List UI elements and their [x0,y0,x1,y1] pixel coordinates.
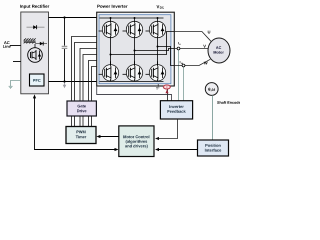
inverter feedback box [160,101,192,119]
power inverter box [97,12,175,86]
node V phase [134,50,136,52]
wire gate 5 [89,61,97,102]
label Input Rectifier [20,5,49,9]
label U [208,31,210,34]
node U phase [110,54,112,56]
transistor Q7 (bottom W IGBT) [146,61,166,81]
wire DC+ bus [49,17,97,19]
wire DC link [64,18,66,46]
wire DC- rail [99,81,163,83]
wire PFC control [35,98,115,150]
label T sense [156,84,159,90]
wire gate 4 [83,55,97,102]
transistor Q5 (bottom U IGBT) [99,61,119,81]
wire gd-pwm 4 [82,116,84,127]
wire gd-pwm 3 [79,116,81,127]
wire to ground [11,81,21,87]
label VDC [157,5,160,8]
wire gd-pwm 6 [91,116,93,127]
transistor Q1 (PFC switch) [28,44,43,62]
wire gd-pwm 2 [74,116,76,127]
wire V motor [174,48,208,50]
wire U phase out [111,32,175,55]
transistor Q6 (bottom V IGBT) [123,61,143,81]
PFC controller box [30,74,45,86]
label Iw [179,61,182,63]
wire gate 1 [72,37,97,102]
wire U leg [110,38,112,65]
wire V leg [134,38,136,65]
wire AC line 1 [10,45,21,47]
node rail 1 [110,17,112,19]
wire DC- bus [49,81,97,83]
label Iv [177,42,180,44]
shaft encoder E1 [205,83,218,96]
sensor red (DC link measure) [163,85,170,93]
input rectifier box [21,12,49,94]
ground marker DC link [63,83,67,89]
wire encoder to position interface [212,95,214,140]
label AC Line [4,41,10,44]
wire DC bus feedback [97,86,172,101]
wire gate 2 [75,43,97,102]
ground [9,86,13,88]
wire gd-pwm 5 [88,116,90,127]
wire position to MC [158,149,198,151]
node DC+ [63,16,65,18]
wire feedback to MC [158,119,178,139]
label Shaft Encoder [217,101,242,104]
node rail 2 [134,17,136,19]
motor M1 [208,38,230,63]
wire gate 3 [80,49,97,102]
PWM timer box [66,127,96,144]
diode D1 [27,25,45,29]
wire W phase out [158,47,175,66]
label W [204,62,208,65]
transistor Q3 (top V IGBT) [123,18,143,38]
power inverter inner border [99,15,171,84]
position interface box [198,140,229,156]
wire MC to PWM [100,136,119,138]
wire W leg [157,38,159,65]
transistor Q2 (top U IGBT) [99,18,119,38]
node DC- junction [63,80,65,82]
wire U motor [174,32,211,42]
transistor Q4 (top W IGBT) [146,18,166,38]
diode D2 [36,42,47,46]
wire V phase out [135,49,175,51]
sensor Iv [177,47,180,50]
motor control box [119,126,154,157]
sensor Iw [182,64,185,67]
wire Iw sense [183,67,185,101]
wire W motor [174,59,210,65]
label V [203,45,206,48]
wire gd-pwm 1 [71,116,73,127]
wire inverter sense [167,86,169,101]
capacitor C1 [62,46,68,48]
gate drive box [67,101,96,116]
wire Iv sense [178,50,180,101]
wire VDC rail [99,17,163,19]
node rail 3 [157,17,159,19]
wire AC line 2 [13,61,21,63]
wire gate 6 [92,67,97,102]
inductor L1 [24,38,36,43]
label Power Inverter [97,5,127,8]
node W phase [157,46,159,48]
